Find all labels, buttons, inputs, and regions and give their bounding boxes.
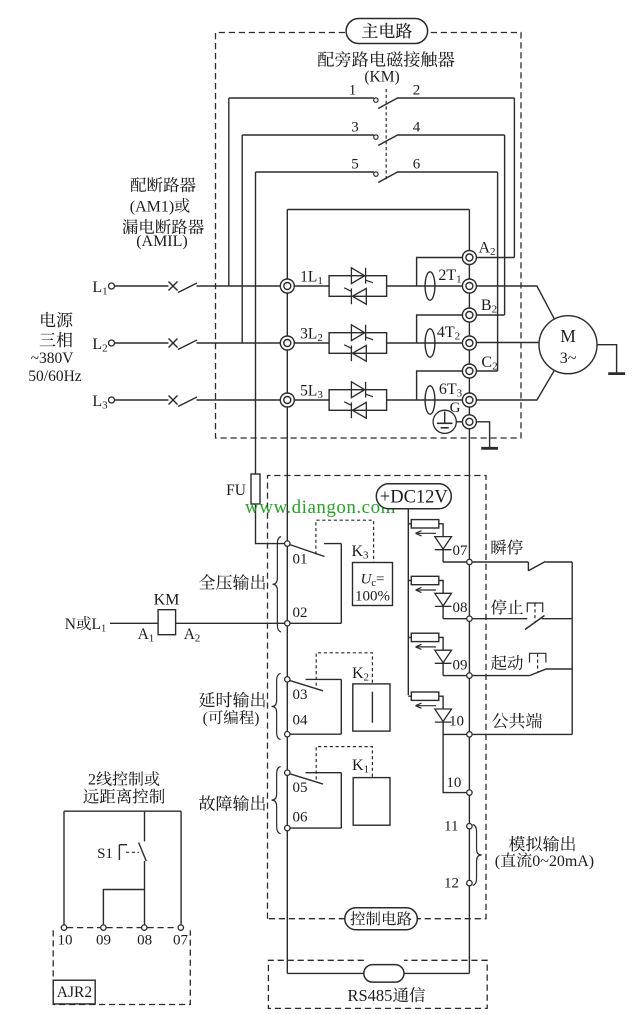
svg-text:L: L — [92, 393, 102, 410]
svg-text:100%: 100% — [355, 589, 390, 605]
terminal 08 — [453, 600, 473, 621]
wire S1 to terminal 09 — [103, 890, 144, 925]
svg-text:=: = — [376, 572, 384, 588]
label 停止 — [491, 599, 523, 614]
brace 01-02 — [273, 537, 282, 633]
wire 08 to switch — [472, 618, 527, 620]
svg-text:10: 10 — [449, 714, 464, 730]
motor M 3~ — [539, 316, 597, 374]
label 配旁路电磁接触器 — [318, 51, 455, 67]
svg-text:1: 1 — [149, 632, 155, 644]
label 起动 — [491, 655, 523, 670]
wire contact5 left drop to L3 and FU feed — [255, 172, 257, 474]
left terminal bus (vertical) — [286, 210, 288, 974]
opto branch 09 (起动) — [53, 539, 594, 1008]
terminal C2 — [462, 354, 497, 378]
terminal 09 (AJR2) — [96, 925, 111, 949]
label K3 — [352, 543, 370, 562]
opto branch 10 (公共端) — [53, 539, 594, 1008]
label 延时输出(可编程) — [199, 692, 265, 727]
terminal 12 — [444, 876, 472, 892]
inner loop wire 1L1 top to A2 — [287, 209, 469, 211]
switch 停止 (stop pushbutton NC) — [525, 603, 572, 630]
relay coil K2 — [353, 684, 390, 731]
svg-text:L: L — [92, 616, 101, 633]
svg-text:4: 4 — [413, 119, 421, 135]
svg-text:08: 08 — [453, 600, 468, 616]
svg-text:3: 3 — [351, 119, 359, 135]
label 全压输出 — [199, 574, 265, 590]
relay contact K2 (03-04 delayed output) — [290, 679, 342, 734]
terminal 03 — [285, 677, 308, 703]
terminal 2T1 — [462, 279, 476, 293]
terminal 5L3 — [280, 383, 323, 407]
label 公共端 — [492, 713, 542, 729]
svg-text:B: B — [481, 297, 492, 314]
common bus of switches — [571, 562, 573, 734]
svg-text:03: 03 — [293, 687, 308, 703]
wire contact4 right drop to B2 — [477, 135, 505, 315]
svg-text:FU: FU — [226, 482, 246, 499]
wire 6T3 to motor — [477, 370, 555, 400]
wire right bus to RS485 — [404, 972, 469, 974]
svg-text:1L: 1L — [300, 269, 317, 286]
label 电源三相~380V 50/60Hz — [28, 312, 82, 385]
terminal 10 (AJR2) — [58, 925, 73, 949]
terminal 01 — [285, 541, 308, 568]
terminal 06 — [285, 810, 308, 831]
svg-text:11: 11 — [444, 819, 458, 835]
label 配断路器(AM1)或漏电断路器(AMIL) — [122, 177, 204, 250]
svg-text:KM: KM — [154, 591, 180, 608]
terminal 3L2 — [280, 326, 323, 350]
link wire C2 to 6T3 — [417, 371, 463, 400]
terminal 4T2 — [462, 336, 476, 350]
label N或L1 — [65, 616, 106, 635]
switch 起动 (start pushbutton NO) — [530, 653, 573, 675]
svg-text:12: 12 — [444, 876, 459, 892]
wire 2T1 to motor — [477, 286, 555, 319]
svg-text:0~20mA: 0~20mA — [532, 853, 589, 870]
svg-text:www.diangon.com: www.diangon.com — [245, 497, 396, 518]
terminal 07 (AJR2) — [173, 925, 189, 949]
svg-text:): ) — [254, 710, 259, 727]
svg-text:07: 07 — [173, 933, 189, 949]
motor ground — [597, 345, 625, 374]
terminal 10 (lower) — [446, 775, 472, 795]
svg-text:50/60Hz: 50/60Hz — [28, 368, 82, 385]
terminal 6T3 — [462, 393, 476, 407]
svg-text:1: 1 — [102, 285, 108, 297]
label 故障输出 — [199, 795, 265, 811]
wire 4T2 to motor — [477, 342, 540, 344]
terminal 04 — [285, 713, 308, 737]
svg-text:2: 2 — [364, 671, 370, 683]
svg-text:2: 2 — [88, 772, 96, 789]
svg-text:01: 01 — [293, 552, 308, 568]
protective earth symbol at G — [433, 410, 462, 433]
svg-text:2T: 2T — [438, 267, 456, 284]
svg-text:C: C — [481, 354, 492, 371]
wire 10 common line — [472, 733, 572, 735]
current transformer CT2 — [425, 324, 460, 357]
KM mechanical link dashed — [385, 89, 387, 180]
label (KM) — [364, 69, 399, 86]
watermark www.diangon.com — [245, 497, 396, 518]
K2 dashed link — [316, 653, 372, 686]
svg-text:2: 2 — [490, 246, 496, 258]
RS485 port stadium — [364, 965, 404, 983]
K3 dashed link — [316, 520, 374, 562]
K1 dashed link — [316, 747, 372, 780]
svg-text:M: M — [560, 326, 576, 346]
svg-text:1: 1 — [349, 83, 357, 99]
terminal 07 — [453, 543, 473, 565]
svg-text:(: ( — [495, 853, 500, 870]
svg-text:2: 2 — [455, 330, 461, 342]
wire contact2 right drop to A2 — [477, 98, 515, 258]
wire 07 to switch — [472, 561, 528, 563]
right terminal bus (vertical) — [468, 210, 470, 974]
svg-text:1: 1 — [364, 763, 370, 775]
terminal G — [450, 400, 477, 429]
svg-text:04: 04 — [293, 713, 309, 729]
soft starter AJR2 label box — [53, 980, 95, 1004]
svg-text:(: ( — [203, 710, 208, 727]
wire contact3 left drop to L2 — [241, 135, 243, 343]
DC12V feed wire — [407, 509, 409, 695]
svg-text:N: N — [65, 616, 76, 633]
phase input L2 with breaker pole — [92, 336, 280, 355]
control circuit dashed enclosure — [268, 476, 487, 919]
terminal 11 — [444, 819, 472, 835]
svg-text:): ) — [169, 198, 174, 215]
SCR module phase 2 (thyristor pair) — [294, 325, 462, 361]
svg-text:10: 10 — [446, 775, 461, 791]
terminal 02 — [285, 605, 308, 626]
svg-text:5L: 5L — [300, 383, 317, 400]
link wire B2 to 4T2 — [417, 315, 463, 343]
svg-text:L: L — [92, 336, 102, 353]
svg-text:6: 6 — [413, 156, 421, 172]
label RS485通信 — [348, 986, 426, 1005]
svg-text:10: 10 — [58, 933, 73, 949]
brace 11-12 — [473, 825, 482, 886]
relay coil K1 — [353, 778, 390, 826]
svg-text:+DC12V: +DC12V — [380, 488, 449, 508]
svg-text:A: A — [479, 239, 491, 256]
svg-text:AJR2: AJR2 — [57, 984, 92, 1001]
label K1 — [352, 757, 369, 776]
terminal A2 — [462, 239, 495, 264]
ground at G terminal — [477, 422, 499, 449]
AJR2 dashed enclosure — [53, 928, 190, 1005]
svg-text:09: 09 — [96, 933, 111, 949]
wire contact1 left drop to L1 — [228, 98, 230, 286]
wire FU to terminal 01 — [256, 504, 285, 544]
brace 03-04 — [272, 673, 281, 739]
label 主电路 (main circuit) stadium — [346, 19, 428, 44]
relay contact K3 (01-02 full-voltage output) — [290, 544, 342, 624]
svg-text:2: 2 — [492, 303, 498, 315]
contactor KM contact 5-6 — [256, 156, 498, 182]
+DC12V supply stadium — [376, 484, 451, 509]
svg-text:05: 05 — [293, 780, 308, 796]
terminal 08 (AJR2) — [137, 925, 152, 949]
terminal 10 — [449, 714, 472, 738]
fuse FU — [226, 474, 260, 504]
contactor KM contact 1-2 — [229, 83, 515, 109]
wire bus to terminal 10 — [63, 811, 65, 925]
SCR module phase 1 (thyristor pair) — [294, 268, 462, 304]
svg-text:3: 3 — [102, 399, 108, 411]
current transformer CT3 — [425, 381, 463, 414]
svg-text:(AMIL): (AMIL) — [136, 233, 188, 250]
RS485 dashed enclosure — [268, 960, 487, 1008]
wire 09 to switch — [472, 675, 529, 677]
svg-text:5: 5 — [351, 156, 359, 172]
svg-text:K: K — [352, 543, 364, 560]
wire left bus to RS485 — [287, 972, 364, 974]
box Uc=100% — [353, 563, 393, 606]
svg-text:02: 02 — [293, 605, 308, 621]
label 控制电路 stadium — [345, 908, 418, 930]
svg-text:08: 08 — [137, 933, 152, 949]
label 2线控制或远距离控制 — [83, 771, 164, 804]
contactor coil KM (A1-A2) — [110, 591, 285, 644]
svg-text:K: K — [352, 665, 364, 682]
terminal B2 — [462, 297, 497, 322]
label 瞬停 — [492, 539, 523, 554]
wire contact6 right drop to C2 — [477, 172, 498, 371]
svg-text:2: 2 — [102, 342, 108, 354]
opto branch 07 (瞬停) — [53, 520, 594, 1009]
svg-text:3: 3 — [457, 387, 463, 399]
main circuit dashed enclosure — [216, 33, 522, 439]
wire branch10 down to lower 10 terminal — [443, 734, 467, 792]
link wire A2 to 2T1 — [417, 258, 463, 287]
svg-text:~380V: ~380V — [31, 350, 75, 367]
brace 05-06 — [272, 767, 281, 834]
terminal 09 — [453, 658, 473, 679]
svg-text:06: 06 — [293, 810, 309, 826]
terminal 05 — [285, 770, 308, 796]
svg-text:S1: S1 — [97, 846, 113, 862]
terminal 1L1 — [280, 269, 323, 293]
svg-text:3: 3 — [363, 549, 369, 561]
switch 瞬停 (jog-stop contact) — [528, 562, 572, 571]
opto branch 08 (停止) — [53, 539, 594, 1008]
svg-text:4T: 4T — [437, 324, 455, 341]
svg-text:K: K — [352, 757, 364, 774]
wire bus to terminal 07 — [180, 811, 182, 925]
phase input L3 with breaker pole — [92, 393, 280, 412]
svg-text:2: 2 — [195, 632, 201, 644]
contactor KM contact 3-4 — [242, 119, 504, 145]
svg-text:3L: 3L — [300, 326, 317, 343]
svg-text:(AM: (AM — [130, 198, 161, 215]
label 模拟输出(直流0~20mA) — [495, 836, 594, 870]
svg-text:(KM): (KM) — [364, 69, 399, 86]
svg-text:6T: 6T — [439, 381, 457, 398]
svg-text:L: L — [92, 279, 102, 296]
svg-text:1: 1 — [456, 273, 462, 285]
svg-text:RS485: RS485 — [348, 986, 393, 1005]
svg-text:2: 2 — [492, 360, 498, 372]
switch S1 (pushbutton) — [97, 811, 146, 925]
svg-text:): ) — [589, 853, 594, 870]
current transformer CT1 — [425, 267, 462, 300]
svg-text:3~: 3~ — [560, 350, 577, 367]
svg-text:1: 1 — [161, 198, 169, 215]
S1 circuit top bus — [64, 810, 181, 812]
svg-text:07: 07 — [453, 543, 469, 559]
svg-text:09: 09 — [453, 658, 468, 674]
relay contact K1 (05-06 fault output) — [290, 773, 342, 828]
svg-text:2: 2 — [413, 83, 421, 99]
phase input L1 with breaker pole — [92, 279, 280, 298]
label K2 — [352, 665, 369, 684]
SCR module phase 3 (thyristor pair) — [294, 382, 462, 418]
svg-text:1: 1 — [101, 624, 106, 635]
